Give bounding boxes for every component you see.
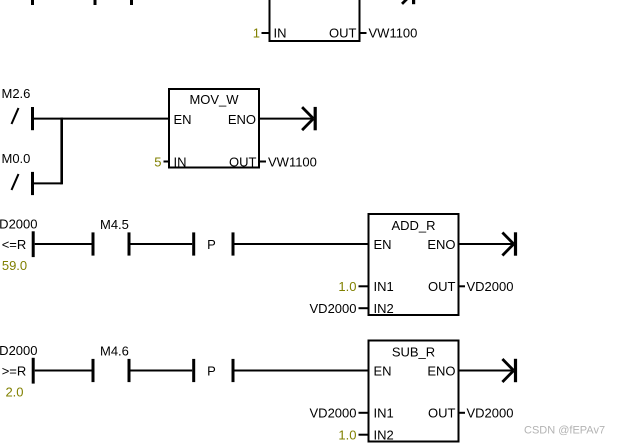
title ADD_R — [391, 218, 435, 233]
contact P text (network 4) — [207, 364, 216, 379]
svg-text:M4.5: M4.5 — [100, 217, 129, 232]
wire tick OUT network 1 — [360, 32, 367, 34]
value 59.0 (compare operand 2) — [2, 258, 27, 273]
svg-text:VW1100: VW1100 — [369, 26, 418, 41]
svg-text:EN: EN — [374, 364, 392, 379]
contact M4.5 right bar — [128, 232, 131, 255]
wire tick IN1 ADD_R — [359, 285, 370, 287]
pin OUT ADD_R — [428, 279, 456, 294]
wire parallel branch vertical — [60, 118, 63, 185]
contact M0.0 NC slash — [12, 174, 19, 190]
pin OUT SUB_R — [428, 406, 456, 421]
contact P text (network 3) — [207, 237, 216, 252]
svg-text:OUT: OUT — [329, 26, 357, 41]
wire M0.0 to branch — [34, 182, 62, 184]
svg-text:P: P — [207, 237, 216, 252]
pin IN1 ADD_R — [374, 279, 394, 294]
contact M4.6 right bar — [128, 359, 131, 382]
svg-text:59.0: 59.0 — [2, 258, 27, 273]
svg-text:ENO: ENO — [427, 364, 455, 379]
contact M4.6 left bar — [92, 359, 95, 382]
value 2.0 (compare operand 2, network 4) — [5, 385, 23, 400]
pin OUT MOV_W — [229, 155, 257, 170]
wire tick IN network 1 — [262, 32, 270, 34]
contact P right bar (network 3) — [232, 232, 235, 255]
network 1 contact bar stub A — [31, 0, 34, 5]
operand VW1100 (OUT MOV_W) — [268, 155, 317, 170]
network 1 contact bar stub C — [130, 0, 133, 5]
operand VW1100 (OUT, network 1) — [369, 26, 418, 41]
pin ENO ADD_R — [427, 237, 455, 252]
operand VD2000 (OUT SUB_R) — [467, 406, 514, 421]
svg-text:IN: IN — [274, 26, 287, 41]
contact M2.6 NC slash — [12, 108, 19, 124]
svg-text:IN1: IN1 — [374, 279, 394, 294]
svg-text:VD2000: VD2000 — [467, 406, 514, 421]
wire M2.6 to MOV_W EN — [34, 118, 170, 120]
wire tick IN2 ADD_R — [359, 307, 370, 309]
svg-text:1.0: 1.0 — [338, 428, 356, 443]
svg-text:SUB_R: SUB_R — [392, 345, 435, 360]
pin IN2 SUB_R — [374, 428, 394, 443]
svg-text:VW1100: VW1100 — [268, 155, 317, 170]
svg-text:M4.6: M4.6 — [100, 344, 129, 359]
pin IN MOV_W — [174, 155, 187, 170]
wire M4.6 to P contact — [131, 370, 193, 372]
contact P left bar (network 3) — [192, 232, 195, 255]
operand VD2000 (IN2 ADD_R) — [310, 301, 357, 316]
label M4.6 — [100, 344, 129, 359]
svg-text:ENO: ENO — [427, 237, 455, 252]
svg-text:M2.6: M2.6 — [2, 86, 31, 101]
svg-text:M0.0: M0.0 — [2, 151, 31, 166]
value 1 (IN operand, network 1) — [253, 26, 260, 41]
svg-text:IN1: IN1 — [374, 406, 394, 421]
wire tick OUT MOV_W — [259, 161, 266, 163]
contact M2.6 right bar — [31, 107, 34, 130]
label VD2000 (compare operand network 4, clipped) — [0, 343, 37, 358]
svg-text:EN: EN — [174, 112, 192, 127]
contact compare right bar — [32, 231, 35, 257]
svg-text:1: 1 — [253, 26, 260, 41]
svg-text:5: 5 — [154, 155, 161, 170]
label VD2000 (compare operand, clipped) — [0, 217, 37, 232]
svg-text:IN2: IN2 — [374, 428, 394, 443]
operand VD2000 (IN1 SUB_R) — [310, 406, 357, 421]
jump arrow network 3 — [502, 232, 517, 255]
label M0.0 — [2, 151, 31, 166]
contact compare <=R text — [2, 237, 27, 252]
wire tick IN2 SUB_R — [359, 434, 370, 436]
value 5 (IN operand MOV_W) — [154, 155, 161, 170]
wire tick OUT ADD_R — [459, 285, 466, 287]
svg-text:CSDN @fEPAv7: CSDN @fEPAv7 — [524, 425, 605, 437]
contact M4.5 left bar — [92, 232, 95, 255]
wire M4.5 to P contact — [131, 243, 193, 245]
svg-text:VD2000: VD2000 — [467, 279, 514, 294]
wire ENO ADD_R to arrow — [459, 243, 514, 245]
title MOV_W — [189, 92, 239, 107]
pin IN of network-1 box — [274, 26, 287, 41]
svg-text:>=R: >=R — [2, 364, 27, 379]
pin EN SUB_R — [374, 364, 392, 379]
wire ENO SUB_R to arrow — [459, 370, 514, 372]
wire compare to M4.6 — [35, 370, 92, 372]
wire compare to M4.5 — [35, 243, 92, 245]
title SUB_R — [392, 345, 435, 360]
contact M0.0 right bar — [31, 172, 34, 195]
box SUB_R U4 — [369, 341, 459, 442]
box MOV (network 1, clipped at top) — [270, 0, 360, 41]
svg-text:IN2: IN2 — [374, 301, 394, 316]
svg-text:ADD_R: ADD_R — [391, 218, 435, 233]
wire P contact to SUB_R EN — [235, 370, 370, 372]
contact compare >=R text — [2, 364, 27, 379]
pin EN MOV_W — [174, 112, 192, 127]
contact P left bar (network 4) — [192, 359, 195, 382]
operand VD2000 (OUT ADD_R) — [467, 279, 514, 294]
svg-text:VD2000: VD2000 — [310, 406, 357, 421]
svg-text:1.0: 1.0 — [338, 279, 356, 294]
pin ENO MOV_W — [228, 112, 256, 127]
svg-text:IN: IN — [174, 155, 187, 170]
svg-text:2.0: 2.0 — [5, 385, 23, 400]
svg-text:P: P — [207, 364, 216, 379]
svg-text:ENO: ENO — [228, 112, 256, 127]
svg-text:OUT: OUT — [428, 406, 456, 421]
pin EN ADD_R — [374, 237, 392, 252]
wire tick OUT SUB_R — [459, 412, 466, 414]
pin ENO SUB_R — [427, 364, 455, 379]
svg-text:<=R: <=R — [2, 237, 27, 252]
svg-text:OUT: OUT — [229, 155, 257, 170]
wire tick IN1 SUB_R — [359, 412, 370, 414]
wire P contact to ADD_R EN — [235, 243, 370, 245]
network 1 contact bar stub B — [94, 0, 97, 5]
value 1.0 (IN1 operand ADD_R) — [338, 279, 356, 294]
watermark CSDN @fEPAv7 — [524, 425, 605, 437]
contact compare right bar (network 4) — [32, 358, 35, 384]
pin OUT of network-1 box — [329, 26, 357, 41]
svg-text:MOV_W: MOV_W — [189, 92, 239, 107]
svg-text:VD2000: VD2000 — [310, 301, 357, 316]
label M4.5 — [100, 217, 129, 232]
value 1.0 (IN2 operand SUB_R) — [338, 428, 356, 443]
jump arrow network 1 (clipped at top) — [402, 0, 415, 4]
wire ENO MOV_W to arrow — [259, 118, 313, 120]
label M2.6 — [2, 86, 31, 101]
svg-text:EN: EN — [374, 237, 392, 252]
box MOV_W U2 — [169, 89, 259, 168]
jump arrow network 2 — [302, 107, 317, 130]
box ADD_R U3 — [369, 214, 459, 315]
jump arrow network 4 — [502, 359, 517, 382]
contact P right bar (network 4) — [232, 359, 235, 382]
svg-text:VD2000: VD2000 — [0, 343, 37, 358]
pin IN1 SUB_R — [374, 406, 394, 421]
pin IN2 ADD_R — [374, 301, 394, 316]
svg-text:OUT: OUT — [428, 279, 456, 294]
wire tick IN MOV_W — [164, 161, 171, 163]
svg-text:VD2000: VD2000 — [0, 217, 37, 232]
